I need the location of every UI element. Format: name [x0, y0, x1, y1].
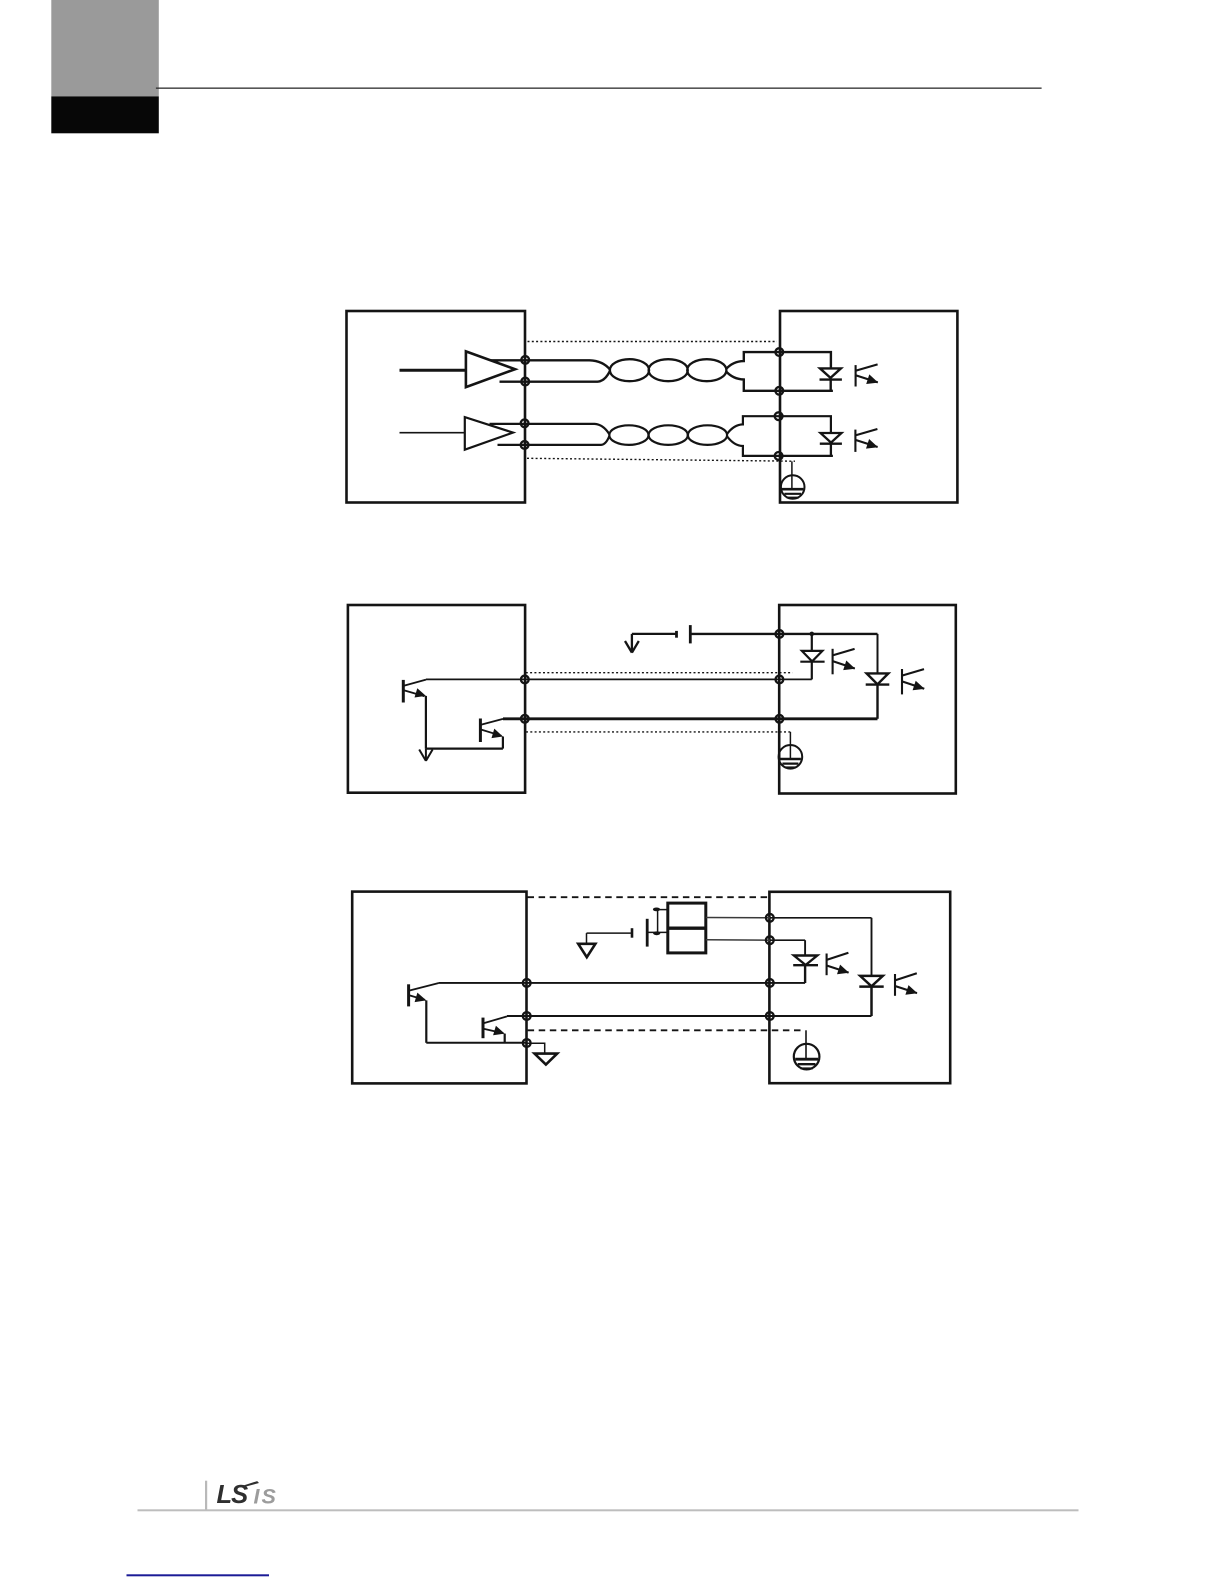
wire: shield to protective earth (diagram 3)	[805, 1030, 807, 1059]
wire: +24V internal rail (diagram 3)	[770, 917, 872, 919]
terminal GND (drive side, diagram 2)	[776, 715, 784, 723]
line driver B input wire	[400, 432, 466, 434]
servo drive box (diagram 2)	[779, 605, 956, 794]
wire: cable 1 minus lead to terminal PF-	[726, 371, 833, 391]
terminal PR- (controller side)	[521, 441, 529, 449]
wire: upper link to converter	[658, 909, 668, 911]
host controller box (diagram 2)	[348, 605, 525, 793]
shield dashed line bottom (diagram 3)	[528, 1029, 805, 1031]
line driver A input wire	[400, 369, 467, 372]
chapter tab gray block	[51, 0, 159, 96]
wire: internal rail down to diode D1	[877, 634, 879, 674]
terminal PR- (drive side)	[775, 452, 783, 460]
terminal PF- (drive side)	[775, 387, 783, 395]
svg-text:LS: LS	[217, 1481, 249, 1509]
wire: PC1 anode drop	[804, 940, 806, 955]
battery minus bar (diagram 3)	[631, 928, 634, 938]
terminal PR+ (drive side)	[775, 412, 783, 420]
host controller box (diagram 3)	[352, 892, 526, 1084]
DC-DC converter divider	[668, 927, 706, 930]
footer rule	[138, 1509, 1079, 1511]
wire: driver B inverting output to cable 2	[498, 436, 610, 445]
junction on +24V rail	[810, 632, 815, 637]
wire: cable 2 minus lead to terminal PR-	[727, 436, 833, 456]
DC-DC converter box	[668, 903, 706, 953]
diode D1	[866, 673, 890, 718]
twisted pair cable 2 (twists)	[609, 425, 727, 445]
wire: Q2 emitter down (diagram 3)	[504, 1034, 506, 1043]
bottom link underline	[127, 1574, 270, 1576]
wire: battery plus to PULCOM terminal and internal rail	[690, 633, 877, 635]
transistor Q1 (diagram 2)	[403, 680, 426, 703]
LSIS logo swoosh	[243, 1481, 259, 1486]
servo drive box (diagram 1)	[780, 311, 957, 503]
optocoupler PC1 LED (diagram 2)	[800, 634, 824, 680]
battery VDC plus bar	[689, 625, 692, 643]
external supply current arrow	[625, 634, 639, 653]
terminal PF (drive side, diagram 2)	[776, 676, 784, 684]
DIAGRAM3	[352, 892, 950, 1084]
wire: to opto PC1 anode (diagram 3)	[770, 939, 805, 941]
line driver A (triangle)	[466, 351, 515, 387]
wire: emitter bus	[426, 747, 503, 749]
wire: pulse signal line PF	[426, 678, 812, 680]
wire: cable 1 plus lead to terminal PF+ and opto PC1 anode	[726, 352, 831, 369]
terminal PF+ (drive side)	[775, 348, 783, 356]
battery plus bar (diagram 3)	[646, 919, 649, 947]
shield dashed line top (diagram 3)	[528, 896, 770, 898]
wire: GND terminal lead out	[527, 1043, 545, 1053]
protective earth symbol (diagram 3)	[794, 1044, 820, 1070]
optocoupler PC1 LED	[820, 368, 842, 390]
wire: emitter bus to GND terminal (diagram 3)	[426, 1042, 527, 1044]
optocoupler PC2 phototransistor (diagram 2)	[902, 669, 925, 694]
wire: converter input link	[657, 910, 659, 933]
DIAGRAM1	[347, 311, 958, 503]
wire: converter output 2 to terminal	[706, 939, 770, 941]
wire: converter output 1 to terminal	[706, 917, 770, 919]
terminal PR (drive side, diagram 3)	[766, 1012, 774, 1020]
footer logo separator bar	[205, 1481, 207, 1511]
HEADER	[51, 0, 1041, 133]
terminal GND (controller side, diagram 2)	[521, 715, 529, 723]
terminal GND (controller side, diagram 3)	[523, 1039, 531, 1047]
transistor Q1 (diagram 3)	[409, 983, 439, 1006]
wire: supply minus to signal ground	[587, 932, 631, 934]
DIAGRAM2	[348, 605, 956, 794]
wire: driver B non-inverting output to cable 2	[490, 424, 610, 434]
wire: shield to protective earth (diagram 2)	[789, 732, 791, 759]
wire: supply to battery minus	[632, 633, 676, 635]
wire: driver A inverting output to cable 1	[500, 371, 611, 382]
FOOTER	[127, 1481, 1079, 1577]
terminal PF (drive side, diagram 3)	[766, 979, 774, 987]
wire: pulse line PF (diagram 3)	[438, 982, 805, 984]
protective earth symbol (diagram 1)	[781, 475, 805, 499]
terminal PF (controller side, diagram 2)	[521, 676, 529, 684]
terminal PR (controller side, diagram 3)	[523, 1012, 531, 1020]
terminal PF (controller side, diagram 3)	[523, 979, 531, 987]
optocoupler PC2 phototransistor (diagram 3)	[895, 973, 917, 996]
line driver B (triangle)	[465, 417, 513, 450]
wire: Q2 emitter down	[502, 737, 504, 749]
wire: cable 2 plus lead to terminal PR+ and opto PC2 anode	[727, 416, 831, 434]
optocoupler PC2 LED	[820, 433, 842, 456]
optocoupler PC1 phototransistor (diagram 2)	[833, 649, 856, 675]
shield dotted line bottom (diagram 1)	[527, 458, 795, 461]
wire: shield to protective earth (diagram 1)	[791, 461, 793, 489]
terminal PF- (controller side)	[521, 378, 529, 386]
wire: Q1 emitter down	[425, 696, 427, 749]
chapter tab black block	[51, 96, 159, 133]
transistor Q2 (diagram 2)	[480, 719, 503, 743]
wire: battery plus to converter	[647, 931, 668, 933]
signal ground arrow (diagram 2)	[419, 749, 432, 761]
wire: rail down to diode D1 (diagram 3)	[871, 918, 873, 976]
svg-text:IS: IS	[254, 1484, 278, 1508]
terminal PULCOM (drive side, diagram 2)	[776, 630, 784, 638]
optocoupler PC1 phototransistor	[856, 364, 879, 386]
wire: driver A non-inverting output to cable 1	[491, 360, 610, 369]
header rule	[156, 88, 1042, 89]
transistor Q2 (diagram 3)	[483, 1016, 507, 1038]
terminal PR+ (controller side)	[521, 419, 529, 427]
shield dotted line top (diagram 2)	[526, 672, 793, 674]
wire: signal ground drop	[586, 933, 588, 944]
battery VDC minus bar	[675, 631, 678, 638]
converter input junction lower	[653, 931, 660, 935]
terminal V+ (drive side, diagram 3)	[766, 914, 774, 922]
signal ground triangle (controller, diagram 3)	[535, 1054, 558, 1065]
host controller box (diagram 1)	[347, 311, 526, 503]
wire: pulse line PR (diagram 3)	[507, 1015, 872, 1017]
optocoupler PC1 LED (diagram 3)	[793, 956, 818, 984]
optocoupler PC2 phototransistor	[855, 429, 878, 452]
shield dotted line top (diagram 1)	[528, 341, 778, 343]
signal ground triangle (supply)	[578, 944, 595, 957]
servo drive box (diagram 3)	[769, 892, 950, 1083]
shield dotted line bottom (diagram 2)	[526, 731, 793, 733]
wire: Q1 emitter down (diagram 3)	[425, 1000, 427, 1042]
twisted pair cable 1 (twists)	[610, 359, 727, 381]
converter input junction upper	[653, 908, 660, 912]
protective earth symbol (diagram 2)	[779, 745, 803, 769]
terminal PF+ (controller side)	[521, 356, 529, 364]
wire: common return line	[503, 717, 878, 720]
terminal V- (drive side, diagram 3)	[766, 936, 774, 944]
diode D1 LED (diagram 3)	[859, 976, 883, 1016]
optocoupler PC1 phototransistor (diagram 3)	[827, 953, 849, 975]
